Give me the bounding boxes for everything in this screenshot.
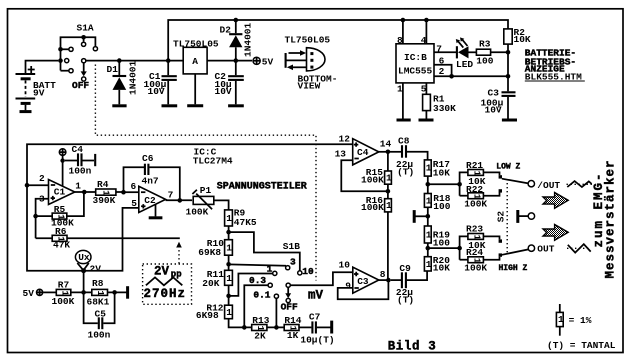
node R15 R16 bbox=[386, 189, 391, 194]
5V supply symbol bbox=[253, 57, 274, 68]
capacitor C2 10u 10V bbox=[215, 61, 244, 105]
S2b arm bbox=[502, 249, 529, 254]
svg-text:mV: mV bbox=[308, 288, 324, 302]
ground C2 bbox=[149, 204, 163, 218]
node pin2/6 bbox=[449, 74, 454, 79]
wire tap 10 bbox=[229, 232, 300, 270]
node pin6 bbox=[121, 190, 126, 195]
capacitor C3 100u 10V bbox=[481, 88, 516, 119]
resistor R1 330K bbox=[423, 83, 457, 119]
svg-text:10V: 10V bbox=[148, 86, 165, 97]
ground R1 bbox=[419, 119, 434, 122]
5V symbol R7 bbox=[23, 288, 57, 299]
ground for C2 bbox=[228, 104, 244, 107]
resistor R5 100K bbox=[36, 192, 84, 228]
wire pin3 bbox=[36, 199, 49, 239]
node R8 right bbox=[112, 290, 117, 295]
svg-text:1: 1 bbox=[226, 307, 232, 318]
wire tap 3 bbox=[229, 264, 286, 265]
svg-text:A: A bbox=[192, 56, 198, 67]
svg-text:10K: 10K bbox=[433, 168, 450, 179]
contact circle 10 bbox=[298, 271, 302, 275]
svg-text:1: 1 bbox=[75, 180, 81, 191]
resistor R22 100K bbox=[460, 184, 500, 210]
resistor R13 2K bbox=[252, 315, 285, 342]
ground bar R8 bbox=[126, 286, 129, 299]
svg-text:1: 1 bbox=[426, 259, 432, 270]
node C4 out bbox=[386, 150, 391, 155]
battery BATT 9V bbox=[16, 61, 59, 112]
svg-text:10V: 10V bbox=[215, 86, 232, 97]
svg-text:1: 1 bbox=[226, 243, 232, 254]
svg-text:13: 13 bbox=[335, 148, 347, 159]
node at C1 bbox=[166, 58, 171, 63]
node R11 R12 bbox=[226, 294, 231, 299]
svg-text:R5: R5 bbox=[54, 204, 66, 215]
svg-text:68K1: 68K1 bbox=[87, 297, 110, 308]
svg-text:14: 14 bbox=[380, 138, 392, 149]
contact circle OUT bbox=[528, 245, 534, 251]
pin6 to pin2 wire bbox=[434, 65, 452, 77]
svg-text:C7: C7 bbox=[309, 311, 321, 322]
svg-text:R13: R13 bbox=[252, 315, 269, 326]
svg-text:R7: R7 bbox=[58, 280, 70, 291]
svg-text:C4: C4 bbox=[357, 147, 369, 158]
svg-text:R23: R23 bbox=[466, 224, 483, 235]
node C3 out bbox=[386, 278, 391, 283]
svg-text:69K8: 69K8 bbox=[198, 247, 221, 258]
svg-text:12: 12 bbox=[339, 133, 351, 144]
svg-text:Ux: Ux bbox=[78, 252, 90, 263]
svg-text:10: 10 bbox=[339, 260, 351, 271]
wire regulator to 5V bbox=[207, 60, 252, 62]
op-amp C3 bbox=[339, 260, 386, 294]
wire C4 output bbox=[378, 151, 391, 153]
annotation Ux 2V bbox=[75, 250, 101, 274]
node R7 R8 bbox=[81, 290, 86, 295]
svg-text:100: 100 bbox=[476, 55, 493, 66]
capacitor C8 22u tantal bbox=[391, 136, 428, 178]
svg-text:= 1%: = 1% bbox=[569, 315, 592, 326]
svg-text:SPANNUNGSTEILER: SPANNUNGSTEILER bbox=[217, 182, 307, 193]
svg-text:100K: 100K bbox=[464, 199, 487, 210]
svg-text:R3: R3 bbox=[479, 39, 491, 50]
resistor R10 69K8 bbox=[198, 238, 232, 270]
svg-text:2: 2 bbox=[39, 173, 45, 184]
S2 link dotted bbox=[506, 183, 508, 253]
svg-text:1: 1 bbox=[386, 200, 392, 211]
op-amp C2 bbox=[131, 181, 174, 213]
svg-text:1: 1 bbox=[426, 195, 432, 206]
svg-text:47K5: 47K5 bbox=[234, 217, 257, 228]
resistor R6 47K bbox=[36, 226, 180, 251]
contact circle 0.3 bbox=[268, 283, 272, 287]
svg-text:Bild 3: Bild 3 bbox=[388, 340, 437, 354]
contact circle 1 bbox=[273, 271, 277, 275]
ground bar mid divider bbox=[414, 210, 428, 223]
svg-text:D2: D2 bbox=[220, 25, 232, 36]
wire tap 1 bbox=[229, 274, 273, 296]
TL750L05 bottom view package bbox=[285, 34, 338, 91]
svg-text:LOW Z: LOW Z bbox=[496, 162, 520, 171]
label battery indicator bbox=[525, 48, 585, 83]
svg-text:1: 1 bbox=[558, 314, 564, 325]
svg-text:100n: 100n bbox=[88, 329, 111, 340]
svg-text:47K: 47K bbox=[53, 240, 70, 251]
svg-text:100K: 100K bbox=[361, 202, 384, 213]
svg-text:(T) = TANTAL: (T) = TANTAL bbox=[547, 340, 616, 351]
annotation box 2Vpp 270Hz bbox=[143, 242, 192, 304]
svg-text:0.1: 0.1 bbox=[253, 290, 270, 301]
svg-text:1: 1 bbox=[426, 163, 432, 174]
5V symbol op-amp supply bbox=[59, 149, 66, 187]
svg-text:LMC555: LMC555 bbox=[398, 65, 433, 76]
capacitor C5 100n bbox=[84, 292, 115, 340]
ground pin1 bbox=[397, 119, 411, 122]
resistor R8 68K1 bbox=[87, 278, 127, 308]
svg-text:IC:B: IC:B bbox=[404, 52, 427, 63]
wire switch to regulator bbox=[86, 60, 183, 62]
capacitor C6 4n7 bbox=[124, 153, 180, 200]
wire S1B common to C3 bbox=[290, 272, 353, 285]
wire pin6 bbox=[124, 191, 139, 193]
svg-text:270Hz: 270Hz bbox=[144, 287, 187, 301]
svg-text:TL750L05: TL750L05 bbox=[173, 38, 219, 49]
svg-text:1: 1 bbox=[267, 263, 273, 274]
svg-text:1: 1 bbox=[386, 173, 392, 184]
node R10 R11 bbox=[226, 262, 231, 267]
svg-text:4n7: 4n7 bbox=[142, 176, 159, 187]
resistor R15 100K bbox=[361, 152, 392, 199]
svg-text:R24: R24 bbox=[466, 247, 483, 258]
svg-text:D1: D1 bbox=[107, 64, 119, 75]
resistor R2 10K bbox=[504, 27, 531, 53]
resistor R20 10K bbox=[424, 255, 450, 273]
svg-text:100: 100 bbox=[433, 201, 450, 212]
node at C2 bbox=[234, 58, 239, 63]
resistor R17 10K bbox=[424, 159, 450, 193]
node tap 0.1 bottom bbox=[274, 325, 279, 330]
resistor R18 100 bbox=[424, 193, 450, 226]
svg-text:7: 7 bbox=[168, 189, 174, 200]
arrow to EMG top bbox=[543, 193, 568, 209]
node R18 R19 ground bbox=[426, 214, 431, 219]
svg-text:C8: C8 bbox=[398, 136, 410, 147]
S1B off arm bbox=[281, 287, 298, 312]
svg-text:1K: 1K bbox=[287, 330, 299, 341]
svg-text:2: 2 bbox=[439, 66, 445, 77]
IC:B LMC555 bbox=[396, 18, 445, 95]
op-amp C4 bbox=[335, 133, 392, 165]
svg-text:S2: S2 bbox=[495, 211, 506, 223]
svg-text:S1A: S1A bbox=[77, 23, 94, 34]
svg-text:R14: R14 bbox=[284, 315, 301, 326]
arrow to EMG bottom bbox=[543, 225, 568, 241]
svg-text:2V: 2V bbox=[90, 264, 102, 275]
capacitor C4 100n bbox=[65, 144, 95, 176]
ground for D1 bbox=[112, 104, 126, 107]
node tap 0.3 bottom bbox=[242, 325, 247, 330]
svg-text:R4: R4 bbox=[97, 179, 109, 190]
svg-text:2V: 2V bbox=[154, 265, 170, 279]
capacitor C7 10u tantal bbox=[300, 311, 334, 345]
svg-text:OFF: OFF bbox=[72, 80, 89, 91]
resistor R16 100K bbox=[361, 195, 392, 280]
node C2 out bbox=[178, 198, 183, 203]
waveform icon bottom bbox=[567, 244, 591, 253]
legend 1 percent resistor bbox=[556, 304, 591, 336]
svg-text:HIGH Z: HIGH Z bbox=[499, 264, 528, 273]
node R19 R20 bbox=[426, 246, 431, 251]
svg-text:S1B: S1B bbox=[283, 241, 300, 252]
resistor R24 100K bbox=[460, 247, 500, 273]
diode D2 1N4001 bbox=[220, 20, 254, 61]
svg-text:9: 9 bbox=[345, 280, 351, 291]
node at D1 bbox=[117, 58, 122, 63]
svg-text:100K: 100K bbox=[186, 206, 209, 217]
svg-text:9V: 9V bbox=[33, 88, 45, 99]
svg-text:Messverstärker: Messverstärker bbox=[603, 159, 617, 278]
waveform icon top bbox=[567, 181, 593, 187]
svg-text:1: 1 bbox=[226, 273, 232, 284]
svg-text:100: 100 bbox=[433, 237, 450, 248]
svg-text:100K: 100K bbox=[52, 296, 75, 307]
svg-text:1: 1 bbox=[426, 230, 432, 241]
svg-text:TL750L05: TL750L05 bbox=[285, 34, 331, 45]
svg-text:C4: C4 bbox=[72, 144, 84, 155]
contact circle 3 bbox=[286, 266, 290, 270]
svg-text:C1: C1 bbox=[54, 187, 66, 198]
svg-text:10K: 10K bbox=[514, 34, 531, 45]
svg-text:R8: R8 bbox=[92, 278, 104, 289]
svg-text:C6: C6 bbox=[142, 153, 154, 164]
resistor R19 100 bbox=[424, 226, 450, 257]
diode D1 1N4001 bbox=[107, 60, 139, 104]
svg-text:R22: R22 bbox=[466, 184, 483, 195]
svg-text:10K: 10K bbox=[433, 262, 450, 273]
capacitor C1 100u 10V bbox=[144, 61, 177, 105]
S1B common contact bbox=[286, 283, 290, 287]
node R9 R10 bbox=[226, 230, 231, 235]
svg-text:1: 1 bbox=[226, 213, 232, 224]
svg-text:P1: P1 bbox=[200, 185, 212, 196]
wire C3 feedback bbox=[338, 280, 389, 299]
node rail D2 bbox=[234, 18, 239, 23]
battery rail wire to 555 bbox=[168, 20, 508, 61]
node C4 cap bbox=[60, 158, 64, 162]
node pin2 bbox=[25, 183, 30, 188]
svg-text:LED: LED bbox=[456, 59, 473, 70]
svg-text:R21: R21 bbox=[466, 160, 483, 171]
switch S1A bbox=[58, 23, 97, 91]
resistor R12 6K98 bbox=[196, 303, 252, 328]
S2a arm bbox=[502, 179, 529, 184]
resistor R23 10K bbox=[460, 224, 500, 260]
svg-text:(T): (T) bbox=[397, 167, 414, 178]
svg-text:8: 8 bbox=[380, 269, 386, 280]
svg-text:8: 8 bbox=[397, 35, 403, 46]
svg-text:5V: 5V bbox=[262, 57, 274, 68]
wire tap 0.1 bbox=[275, 298, 277, 327]
node R5 left bbox=[33, 214, 38, 219]
svg-text:10µ(T): 10µ(T) bbox=[300, 334, 334, 345]
svg-text:C5: C5 bbox=[95, 309, 107, 320]
ground C3 bbox=[502, 119, 517, 122]
contact square S2b R24 bbox=[499, 253, 502, 256]
svg-text:100n: 100n bbox=[69, 165, 92, 176]
wire C1 output bbox=[75, 191, 86, 193]
wire R2 node to C3 bbox=[507, 52, 509, 91]
svg-text:6: 6 bbox=[131, 181, 137, 192]
svg-text:/OUT: /OUT bbox=[537, 180, 560, 191]
trimmer P1 100K bbox=[186, 185, 229, 217]
ground for regulator bbox=[187, 104, 203, 107]
pin1 ground wire bbox=[402, 83, 404, 119]
pin7 wire bbox=[434, 51, 456, 53]
wire 2V to R7R8 bbox=[83, 271, 85, 293]
svg-text:390K: 390K bbox=[93, 195, 116, 206]
svg-text:20K: 20K bbox=[202, 278, 219, 289]
svg-text:C2: C2 bbox=[144, 195, 156, 206]
wire pin2 bbox=[27, 184, 49, 186]
resistor R9 47K5 bbox=[225, 208, 257, 240]
op-amp C1 bbox=[39, 173, 81, 205]
label IC:C TLC27M4 bbox=[193, 147, 233, 167]
svg-text:5V: 5V bbox=[23, 288, 35, 299]
wire R19R20 to S2b bbox=[428, 247, 460, 249]
svg-text:100K: 100K bbox=[361, 174, 384, 185]
contact circle /OUT bbox=[528, 181, 534, 187]
resistor R11 20K bbox=[202, 269, 232, 305]
svg-text:OUT: OUT bbox=[537, 244, 554, 255]
S2 middle ground contact bbox=[518, 210, 535, 223]
svg-text:4: 4 bbox=[421, 35, 427, 46]
dotted separator line bbox=[95, 65, 316, 281]
node R17 R18 bbox=[426, 182, 431, 187]
pin2 wire bbox=[434, 75, 508, 77]
capacitor C9 22u tantal bbox=[391, 263, 427, 305]
regulator U TL750L05 bbox=[173, 38, 219, 104]
svg-text:10: 10 bbox=[302, 266, 314, 277]
svg-text:1N4001: 1N4001 bbox=[243, 22, 254, 57]
svg-text:OFF: OFF bbox=[281, 302, 298, 313]
contact square S2b R23 bbox=[499, 239, 502, 242]
wire input line to pin12 C4 bbox=[27, 144, 353, 271]
contact square S2a R22 bbox=[499, 189, 502, 192]
wire C4 feedback bbox=[341, 160, 388, 191]
resistor R7 100K bbox=[52, 280, 92, 308]
node S2a left bbox=[457, 182, 462, 187]
wire tap 0.3 bbox=[244, 285, 268, 327]
svg-text:5: 5 bbox=[131, 198, 137, 209]
node 2V bbox=[81, 268, 86, 273]
svg-text:330K: 330K bbox=[433, 103, 456, 114]
svg-text:1N4001: 1N4001 bbox=[128, 60, 139, 95]
svg-text:VIEW: VIEW bbox=[298, 81, 321, 92]
contact circle 0.1 bbox=[274, 294, 278, 298]
LED bbox=[456, 37, 477, 70]
svg-text:2K: 2K bbox=[254, 331, 266, 342]
svg-text:R6: R6 bbox=[55, 226, 67, 237]
node pin2 to C3 bbox=[506, 74, 511, 79]
node C1 out bbox=[82, 190, 87, 195]
svg-text:(T): (T) bbox=[397, 294, 414, 305]
wire C2 output bbox=[166, 199, 193, 201]
svg-text:C3: C3 bbox=[357, 276, 369, 287]
svg-text:1: 1 bbox=[95, 290, 106, 296]
contact square S2a R21 bbox=[499, 175, 502, 178]
wire R17R18 to S2a bbox=[428, 183, 460, 185]
ground for C1 bbox=[162, 104, 178, 107]
svg-text:6K98: 6K98 bbox=[196, 310, 219, 321]
svg-text:C9: C9 bbox=[399, 263, 411, 274]
wire C3 output bbox=[379, 279, 391, 281]
node R3 R2 bbox=[506, 50, 511, 55]
svg-text:100K: 100K bbox=[464, 262, 487, 273]
resistor R4 390K bbox=[87, 179, 126, 206]
svg-text:3: 3 bbox=[290, 257, 296, 268]
node S2b left bbox=[457, 246, 462, 251]
resistor R21 10K bbox=[460, 160, 500, 196]
svg-text:10V: 10V bbox=[485, 105, 502, 116]
svg-text:0.3: 0.3 bbox=[249, 275, 266, 286]
svg-text:TLC27M4: TLC27M4 bbox=[193, 155, 233, 166]
resistor R14 1K bbox=[284, 315, 311, 341]
resistor R3 100 bbox=[476, 39, 508, 67]
